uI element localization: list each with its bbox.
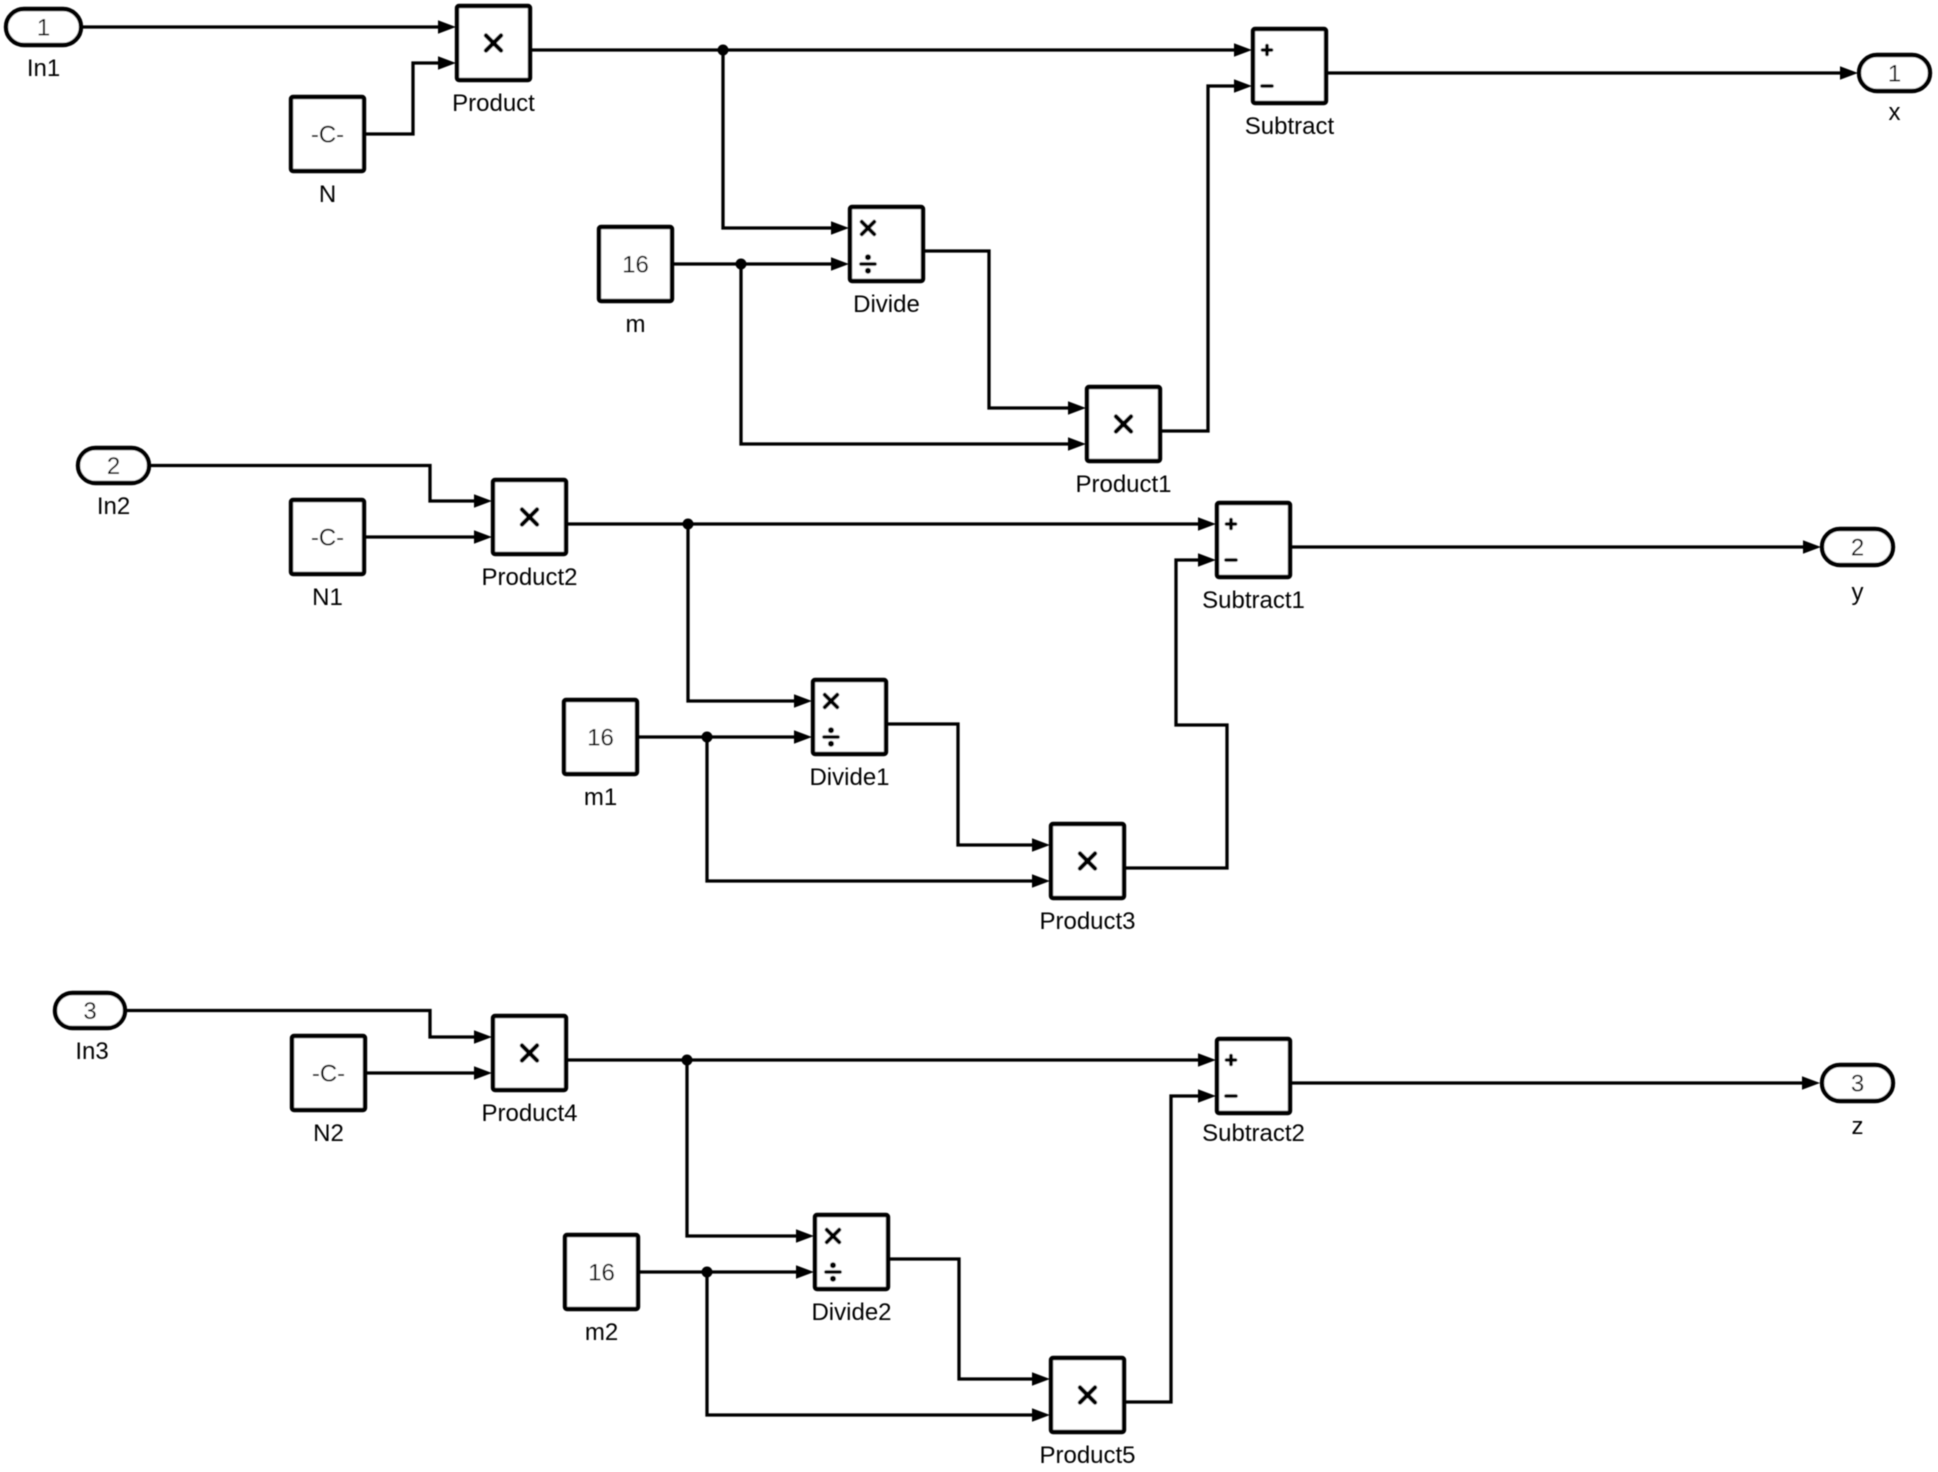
- svg-text:m2: m2: [585, 1319, 618, 1346]
- label Divide: [853, 291, 920, 318]
- wire branch to Product5 lower input: [707, 1272, 1050, 1422]
- inport In3: [55, 993, 125, 1028]
- inport In2: [78, 448, 149, 483]
- wire N1 to Product2: [364, 530, 492, 544]
- block Product4: [493, 1016, 566, 1090]
- block Product3: [1051, 824, 1124, 898]
- wire Divide1 to Product3 upper input: [886, 724, 1050, 852]
- svg-text:Product4: Product4: [481, 1100, 577, 1127]
- block Product: [457, 6, 530, 80]
- wire Product to Subtract plus: [530, 43, 1252, 57]
- constant N2: [292, 1036, 365, 1110]
- wire m to Divide: [672, 257, 849, 271]
- svg-text:x: x: [1889, 99, 1901, 126]
- block Divide2: [815, 1215, 888, 1289]
- block Divide1: [813, 680, 886, 754]
- wire branch to Divide1 times input: [688, 524, 812, 708]
- wire Subtract1 to outport y: [1290, 540, 1821, 554]
- label m1: [584, 784, 617, 811]
- svg-text:Subtract2: Subtract2: [1202, 1120, 1305, 1147]
- svg-text:In3: In3: [75, 1038, 108, 1065]
- svg-text:z: z: [1852, 1113, 1864, 1140]
- block Subtract2: [1217, 1039, 1290, 1113]
- wire m1 to Divide1: [637, 730, 812, 744]
- wire Divide to Product1 upper input: [923, 251, 1086, 415]
- block Product1: [1087, 387, 1160, 461]
- label Divide2: [811, 1299, 891, 1326]
- label Product2: [481, 564, 577, 591]
- junction on Product2 output: [683, 519, 694, 530]
- svg-text:3: 3: [83, 998, 96, 1025]
- wire In1 to Product: [83, 20, 456, 34]
- svg-text:2: 2: [107, 453, 120, 480]
- wire Product1 to Subtract minus: [1160, 79, 1252, 431]
- svg-text:In1: In1: [27, 55, 60, 82]
- junction on Product4 output: [682, 1055, 693, 1066]
- junction on m1 output: [702, 732, 713, 743]
- svg-text:Product1: Product1: [1075, 471, 1171, 498]
- svg-text:Divide: Divide: [853, 291, 920, 318]
- svg-text:In2: In2: [97, 493, 130, 520]
- junction on m output: [736, 259, 747, 270]
- wire Product5 to Subtract2 minus: [1124, 1089, 1216, 1402]
- wire N2 to Product4: [365, 1066, 492, 1080]
- svg-text:Divide1: Divide1: [809, 764, 889, 791]
- svg-text:16: 16: [588, 1260, 615, 1287]
- label In1: [27, 55, 60, 82]
- svg-text:y: y: [1852, 579, 1864, 606]
- label Product3: [1039, 908, 1135, 935]
- wire branch to Product1 lower input: [741, 264, 1086, 451]
- label z: [1852, 1113, 1864, 1140]
- svg-text:Divide2: Divide2: [811, 1299, 891, 1326]
- wire branch to Divide times input: [723, 50, 849, 235]
- wire m2 to Divide2: [638, 1265, 814, 1279]
- junction on m2 output: [702, 1267, 713, 1278]
- label Subtract1: [1202, 587, 1305, 614]
- wire Subtract to outport x: [1326, 66, 1858, 80]
- svg-text:Product5: Product5: [1039, 1442, 1135, 1469]
- svg-text:N1: N1: [312, 584, 343, 611]
- label In2: [97, 493, 130, 520]
- svg-text:N2: N2: [313, 1120, 344, 1147]
- wire Divide2 to Product5 upper input: [888, 1259, 1050, 1386]
- label N: [319, 181, 336, 208]
- wire Subtract2 to outport z: [1290, 1076, 1820, 1090]
- svg-text:-C-: -C-: [311, 122, 344, 149]
- wire branch to Product3 lower input: [707, 737, 1050, 888]
- label Product5: [1039, 1442, 1135, 1469]
- label m: [626, 311, 646, 338]
- wire branch to Divide2 times input: [687, 1060, 814, 1243]
- svg-text:Product: Product: [452, 90, 535, 117]
- block Divide: [850, 207, 923, 281]
- label Product1: [1075, 471, 1171, 498]
- wire In2 to Product2: [149, 466, 492, 508]
- constant N: [291, 97, 364, 171]
- constant m1: [564, 700, 637, 774]
- junction on Product output: [718, 45, 729, 56]
- svg-text:2: 2: [1851, 535, 1864, 562]
- svg-text:N: N: [319, 181, 336, 208]
- svg-text:3: 3: [1851, 1071, 1864, 1098]
- label Divide1: [809, 764, 889, 791]
- label N1: [312, 584, 343, 611]
- label N2: [313, 1120, 344, 1147]
- svg-text:1: 1: [37, 15, 50, 42]
- svg-text:m: m: [626, 311, 646, 338]
- svg-text:m1: m1: [584, 784, 617, 811]
- svg-text:1: 1: [1888, 61, 1901, 88]
- svg-text:Subtract1: Subtract1: [1202, 587, 1305, 614]
- label m2: [585, 1319, 618, 1346]
- svg-text:16: 16: [622, 252, 649, 279]
- wire Product4 to Subtract2 plus: [566, 1053, 1216, 1067]
- svg-text:Product3: Product3: [1039, 908, 1135, 935]
- svg-text:16: 16: [587, 725, 614, 752]
- label In3: [75, 1038, 108, 1065]
- outport y: [1822, 529, 1893, 565]
- svg-text:-C-: -C-: [312, 1061, 345, 1088]
- label Product4: [481, 1100, 577, 1127]
- inport In1: [6, 9, 81, 45]
- svg-text:Subtract: Subtract: [1245, 113, 1335, 140]
- svg-text:Product2: Product2: [481, 564, 577, 591]
- block Product2: [493, 480, 566, 554]
- constant N1: [291, 500, 364, 574]
- outport x: [1859, 55, 1930, 91]
- label Subtract2: [1202, 1120, 1305, 1147]
- label Product: [452, 90, 535, 117]
- label y: [1852, 579, 1864, 606]
- block Product5: [1051, 1358, 1124, 1432]
- block Subtract: [1253, 29, 1326, 103]
- wire In3 to Product4: [125, 1011, 492, 1044]
- svg-text:-C-: -C-: [311, 525, 344, 552]
- wire Product3 to Subtract1 minus: [1124, 553, 1227, 868]
- constant m2: [565, 1235, 638, 1309]
- wire Product2 to Subtract1 plus: [566, 517, 1216, 531]
- wire N to Product: [364, 56, 456, 134]
- block Subtract1: [1217, 503, 1290, 577]
- label x: [1889, 99, 1901, 126]
- constant m: [599, 227, 672, 301]
- outport z: [1822, 1065, 1893, 1101]
- label Subtract: [1245, 113, 1335, 140]
